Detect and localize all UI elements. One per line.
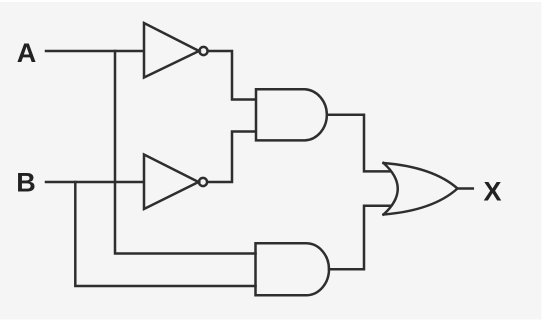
- svg-text:A: A: [17, 38, 37, 68]
- svg-text:X: X: [483, 176, 501, 206]
- svg-text:B: B: [16, 167, 36, 197]
